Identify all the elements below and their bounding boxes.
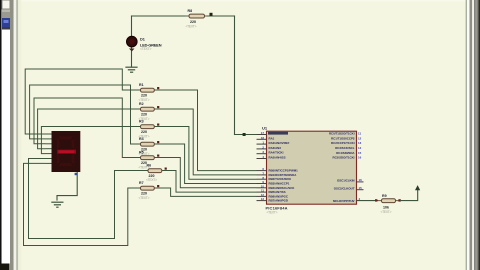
svg-text:R8: R8 xyxy=(188,9,193,13)
svg-text:R2: R2 xyxy=(139,102,144,106)
svg-text:RC4/SDI/SDA: RC4/SDI/SDA xyxy=(336,151,355,155)
canvas top white edge xyxy=(14,0,466,2)
svg-text:14: 14 xyxy=(358,146,362,150)
svg-text:RA2/AN2/VREF: RA2/AN2/VREF xyxy=(269,141,290,145)
left panel white column xyxy=(2,0,10,270)
wire loop segment R2 display-pin d straight row xyxy=(38,109,139,149)
svg-text:220: 220 xyxy=(190,20,196,24)
wire loop segment R6 display-pin f bottom route xyxy=(29,159,147,239)
wire R4 to chip RB3 xyxy=(159,144,257,184)
device list dark row xyxy=(2,27,10,30)
wire loop segment R1 display-pin a xyxy=(25,69,138,134)
panel divider bar xyxy=(2,10,10,13)
resistor R9 xyxy=(378,199,400,203)
wire top horizontal from LED riser to R8 xyxy=(132,15,189,17)
left grey scrollbar band xyxy=(10,0,14,270)
chip interior left pin names xyxy=(269,136,299,202)
canvas edge grey line xyxy=(16,0,18,270)
svg-text:R5: R5 xyxy=(139,151,144,155)
wire LED bottom to ground xyxy=(131,47,133,67)
junction dot right of R9 xyxy=(398,199,400,201)
seg top off xyxy=(58,137,73,140)
svg-text:R1: R1 xyxy=(139,83,144,87)
right outer grey band xyxy=(474,0,478,270)
svg-text:RC2/CCP1/T1CKI: RC2/CCP1/T1CKI xyxy=(331,141,355,145)
svg-text:RC3/SCK/SCL: RC3/SCK/SCL xyxy=(335,146,355,150)
svg-text:MCLR/VPP/THV: MCLR/VPP/THV xyxy=(333,199,355,203)
object selector grey header xyxy=(2,12,10,18)
resistor R7 xyxy=(133,185,160,190)
svg-text:R4: R4 xyxy=(139,137,144,141)
svg-text:RA3/AN3: RA3/AN3 xyxy=(269,146,282,150)
wire loop segment R5 display-pin c xyxy=(34,98,139,158)
svg-text:<TEXT>: <TEXT> xyxy=(140,47,152,51)
svg-text:OSC2/CLKOUT: OSC2/CLKOUT xyxy=(334,186,355,190)
7-segment display body xyxy=(52,131,81,172)
inner white gutter xyxy=(14,0,17,270)
svg-text:RA1: RA1 xyxy=(269,136,275,140)
svg-text:11: 11 xyxy=(358,132,361,136)
right outer band light mid line xyxy=(476,0,477,270)
svg-text:13: 13 xyxy=(261,197,265,201)
ground under LED xyxy=(126,67,137,72)
svg-text:RA5/AN4/SS: RA5/AN4/SS xyxy=(269,155,286,159)
seg middle lit xyxy=(57,150,76,154)
overview window pane xyxy=(2,0,10,9)
wire R7 to chip RB6 xyxy=(159,188,257,196)
wire loop segment R3 display-pin e straight row xyxy=(41,127,138,154)
svg-text:15: 15 xyxy=(358,151,362,155)
resistor R3 xyxy=(133,124,160,129)
seg bottom-left off xyxy=(57,153,60,165)
power terminal arrow xyxy=(415,185,420,190)
svg-text:R9: R9 xyxy=(382,194,387,198)
wire loop segment R7 display-pin g bottom route xyxy=(24,163,139,245)
display pin stubs left xyxy=(46,134,52,163)
wire MCLR to R9 xyxy=(357,200,379,202)
svg-text:R6: R6 xyxy=(147,164,152,168)
svg-text:<TEXT>: <TEXT> xyxy=(139,196,150,200)
svg-text:16: 16 xyxy=(358,156,362,160)
wire R1 to chip RB0 xyxy=(159,90,257,171)
svg-text:RC5/SDO/T1CKI: RC5/SDO/T1CKI xyxy=(332,156,354,160)
wire LED top riser xyxy=(131,16,133,37)
svg-text:12: 12 xyxy=(358,136,362,140)
svg-text:18: 18 xyxy=(261,136,265,140)
resistor R2 xyxy=(133,106,160,111)
svg-text:D1: D1 xyxy=(140,38,145,42)
resistor R5 xyxy=(133,155,160,160)
junction dot on RA0 wire xyxy=(243,133,246,136)
wire display common to ground xyxy=(57,172,77,201)
ground under display xyxy=(51,202,63,207)
svg-text:RA4/T0CKI: RA4/T0CKI xyxy=(269,151,284,155)
wire vertical riser x=234 down to chip row xyxy=(234,16,236,135)
svg-text:OSC1/CLKIN: OSC1/CLKIN xyxy=(337,179,355,183)
right canvas edge thin grey line xyxy=(466,0,467,270)
svg-text:RC0/T1OSO/T1CKI: RC0/T1OSO/T1CKI xyxy=(329,132,355,136)
right canvas white edge xyxy=(467,0,470,270)
seg bottom-right off xyxy=(72,153,75,165)
LED D1 xyxy=(127,36,138,51)
svg-text:<TEXT>: <TEXT> xyxy=(146,178,157,182)
microcontroller U1 body xyxy=(267,131,357,204)
wire R3 to chip RB2 xyxy=(159,127,257,180)
pin-end marker right of R8 xyxy=(210,13,213,16)
display blue pin marker xyxy=(75,173,77,175)
svg-text:17: 17 xyxy=(261,131,265,135)
wire R5 to chip RB4 xyxy=(159,158,257,188)
resistor R6 xyxy=(141,168,167,173)
resistor R8 xyxy=(186,14,206,18)
svg-text:<TEXT>: <TEXT> xyxy=(267,211,278,215)
canvas pale margin xyxy=(18,0,21,270)
svg-text:<TEXT>: <TEXT> xyxy=(381,210,392,214)
wire R8 right to corner xyxy=(206,15,235,17)
right scrollbar white line xyxy=(472,0,474,270)
wire R9 to power corner xyxy=(400,190,418,201)
chip right mid pin stub ticks xyxy=(357,182,364,190)
resistor R1 xyxy=(133,87,160,92)
bottom-left black block xyxy=(0,264,10,270)
resistor R4 xyxy=(133,141,160,146)
wire R6 to chip RB5 xyxy=(162,171,257,193)
wire horizontal into chip pin RA0 xyxy=(235,134,257,136)
chip left pin stubs lower RB group xyxy=(257,171,267,201)
seg top-right off xyxy=(72,138,75,150)
seg bottom off xyxy=(58,163,73,166)
left window border black line xyxy=(0,0,2,270)
svg-text:R3: R3 xyxy=(139,120,144,124)
svg-text:RB7/AN6/PGD: RB7/AN6/PGD xyxy=(269,199,288,203)
svg-text:R7: R7 xyxy=(139,181,144,185)
seg top-left off xyxy=(57,138,60,150)
junction dot left of R9 xyxy=(375,199,377,201)
svg-text:<TEXT>: <TEXT> xyxy=(186,25,197,29)
chip left pin numbers upper xyxy=(261,131,265,159)
chip right pin numbers xyxy=(358,132,362,201)
chip left pin numbers lower xyxy=(261,167,265,201)
wire R2 to chip RB1 xyxy=(159,109,257,175)
wire loop segment R4 display-pin b xyxy=(30,85,139,144)
right scrollbar grey band xyxy=(470,0,473,270)
right window border dark line xyxy=(478,0,480,270)
svg-text:U1: U1 xyxy=(262,125,268,130)
chip interior first row highlighted xyxy=(268,132,288,135)
svg-text:RC1/T1OSI/CCP2: RC1/T1OSI/CCP2 xyxy=(331,136,355,140)
device list blue icon xyxy=(2,18,10,27)
chip interior right pin names xyxy=(329,132,355,204)
chip left pin stubs upper RA group xyxy=(257,135,267,159)
svg-text:13: 13 xyxy=(358,141,362,145)
